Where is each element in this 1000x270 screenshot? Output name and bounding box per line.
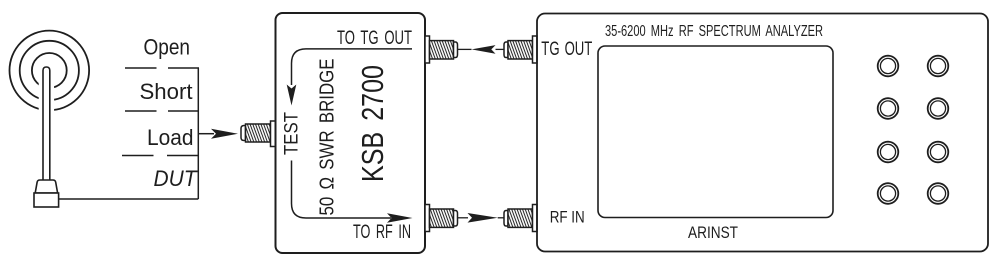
svg-text:RF IN: RF IN	[550, 207, 585, 226]
svg-text:50 Ω SWR BRIDGE: 50 Ω SWR BRIDGE	[317, 59, 339, 216]
svg-text:TG OUT: TG OUT	[541, 39, 592, 60]
svg-text:ARINST: ARINST	[688, 224, 738, 242]
svg-text:35-6200 MHz RF SPECTRUM ANALYZ: 35-6200 MHz RF SPECTRUM ANALYZER	[605, 23, 823, 40]
svg-text:DUT: DUT	[154, 166, 199, 191]
svg-text:Load: Load	[147, 125, 194, 150]
svg-text:TO RF IN: TO RF IN	[353, 222, 411, 243]
svg-text:TO TG OUT: TO TG OUT	[337, 28, 412, 49]
svg-text:KSB 2700: KSB 2700	[355, 65, 390, 182]
svg-text:TEST: TEST	[282, 112, 303, 155]
svg-text:Open: Open	[144, 35, 191, 60]
svg-text:Short: Short	[140, 79, 194, 104]
